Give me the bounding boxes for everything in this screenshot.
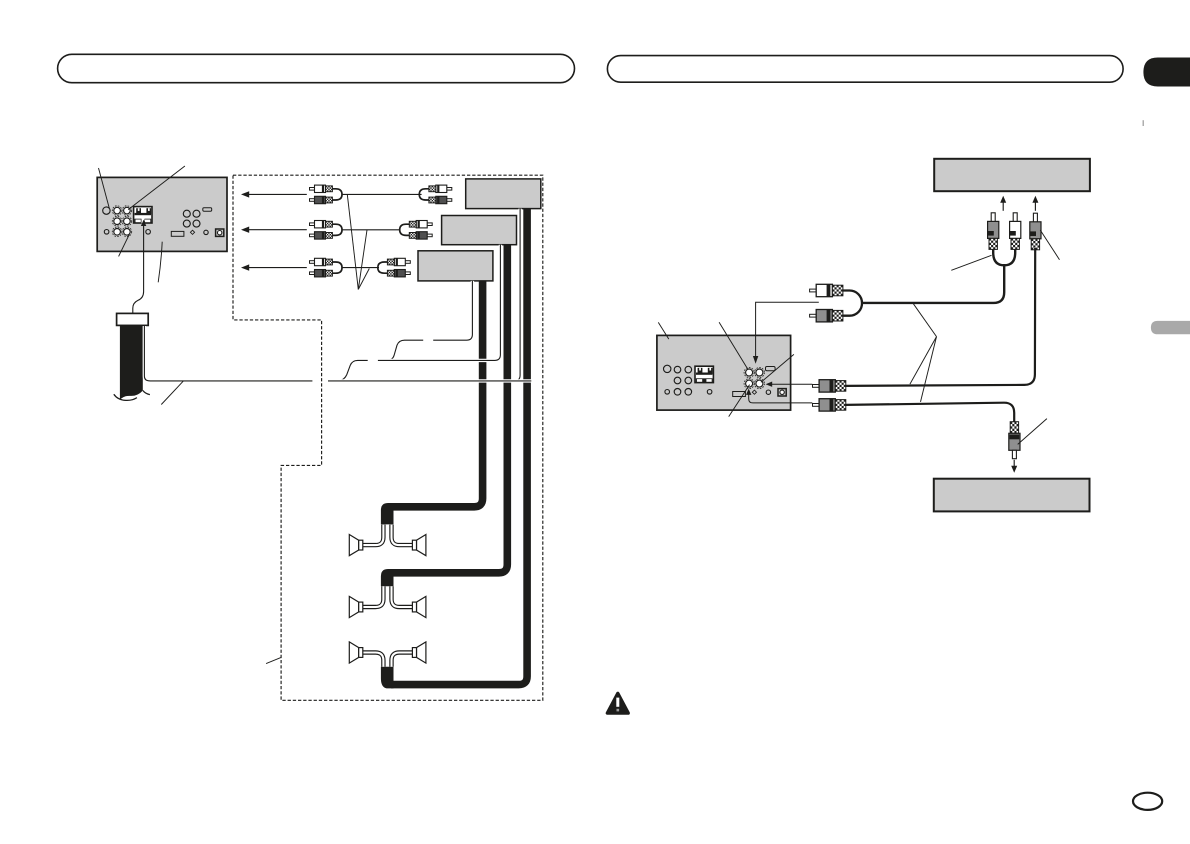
cable3 end stub bbox=[381, 503, 394, 524]
leader line: unit body callout D bbox=[158, 242, 162, 283]
top component box (right) bbox=[934, 159, 1090, 191]
right unit: left jack group bbox=[674, 366, 681, 373]
RCA interconnect wire row2 bbox=[342, 229, 400, 231]
right unit: antenna input square jack bbox=[778, 389, 786, 396]
leader line: jack callout B bbox=[128, 166, 185, 210]
RCA pair row2 right end bbox=[427, 223, 432, 226]
left unit: wiring harness connector socket bbox=[134, 207, 152, 223]
left unit: small rounded slot bbox=[203, 208, 212, 211]
gray side tab bbox=[1151, 321, 1190, 334]
cable1 end stub bbox=[381, 667, 394, 689]
right unit: AV input jacks with dashed rings bbox=[746, 369, 753, 376]
page corner black tab bbox=[1143, 58, 1190, 87]
upward RCA plug (white) bbox=[1013, 213, 1017, 222]
insertion guide with left arrow into right jack bbox=[772, 383, 813, 385]
right unit: small circle below connector bbox=[707, 390, 712, 395]
dashed boundary (hide-away components region) bbox=[233, 175, 543, 700]
RCA plug into right jack (middle) bbox=[813, 385, 820, 388]
speaker cable from box1 (thick) bbox=[391, 209, 527, 685]
left unit: small circle bbox=[104, 230, 109, 235]
RCA cable from pair to upward pair bbox=[861, 264, 1004, 303]
upward RCA plug (dark) bbox=[991, 213, 995, 222]
right unit: wiring harness connector socket bbox=[695, 366, 713, 382]
bottom component box (right) bbox=[934, 479, 1090, 512]
leader line: right unit top jack callout bbox=[719, 322, 748, 369]
left unit: small circle (power) bbox=[204, 230, 208, 234]
left unit: small diamond bbox=[190, 230, 194, 234]
RCA pair row3 right end bbox=[405, 261, 410, 264]
speaker pair row3 bbox=[363, 653, 384, 667]
right unit: small circle (power) bbox=[766, 390, 770, 394]
leader line: U-loop cable callout bbox=[951, 255, 991, 270]
leader line: speaker harness callout bbox=[266, 658, 281, 664]
left unit: fuse holder rectangle bbox=[171, 231, 184, 236]
system remote wire from box2 bbox=[378, 245, 501, 361]
RCA cable middle plug to upward single plug bbox=[846, 248, 1035, 386]
leader lines: RCA cables callout (V shape) bbox=[347, 194, 358, 289]
warning triangle bbox=[607, 693, 628, 713]
RCA plug into bottom jack bbox=[813, 404, 820, 407]
RCA pair row2 left end bbox=[310, 223, 315, 226]
head unit (rear view, right) bbox=[657, 335, 791, 410]
arrow: rear output (middle) bbox=[248, 229, 307, 231]
leader line: right unit body callout bbox=[658, 322, 669, 339]
insertion arrow down into bottom box bbox=[1013, 460, 1015, 467]
leader lines: RCA cables callout (right V) bbox=[913, 304, 936, 337]
left unit: large jack circle bbox=[103, 207, 110, 214]
small tick mark bbox=[1143, 120, 1144, 126]
system remote wire from box3 bbox=[433, 281, 472, 340]
right unit: small circle bbox=[665, 390, 670, 395]
leader line: right unit bottom-left jack callout bbox=[729, 385, 750, 417]
leader line: jack callout C bbox=[119, 234, 130, 256]
insertion arrow up (single plug) bbox=[1034, 202, 1036, 211]
header pill right bbox=[607, 56, 1123, 83]
leader line: right unit bottom-right jack callout bbox=[761, 354, 794, 382]
speaker pair row1 bbox=[363, 525, 384, 546]
head unit (rear view, left) bbox=[97, 177, 227, 251]
arrow: subwoofer output (bottom) bbox=[248, 267, 307, 269]
page number oval bbox=[1133, 793, 1162, 810]
leader line: downward plug callout bbox=[1018, 419, 1047, 445]
right unit: fuse holder rectangle bbox=[733, 392, 746, 397]
leader line: jack callout A bbox=[99, 168, 110, 208]
RCA interconnect wire row3 bbox=[342, 267, 379, 269]
insertion guide with down arrow into top jack bbox=[756, 302, 819, 356]
RCA interconnect wire row1 bbox=[342, 193, 422, 195]
power cord body (torn) bbox=[120, 325, 143, 400]
amplifier box 1 bbox=[466, 179, 541, 209]
left unit: antenna input square jack bbox=[216, 229, 224, 236]
power-cord wire with insertion arrow into connector bbox=[133, 226, 144, 314]
RCA pair row3 left end bbox=[310, 261, 315, 264]
upward RCA plug (single, gray) bbox=[1033, 213, 1037, 222]
RCA pair row1 right end bbox=[446, 188, 451, 191]
leader line: single upward plug callout bbox=[1040, 230, 1059, 260]
right unit: small rounded slot bbox=[766, 367, 776, 371]
left unit: preout jack group (right side) bbox=[183, 210, 190, 217]
speaker pair row2 bbox=[363, 586, 384, 607]
insertion arrow up (pair) bbox=[1002, 202, 1004, 211]
antenna wire from box1 bbox=[514, 209, 520, 381]
amplifier box 2 bbox=[442, 216, 517, 245]
RCA pair into right unit (left end) bbox=[810, 289, 817, 292]
arrow: front output (top) bbox=[248, 193, 307, 195]
speaker cable from box3 (thick) bbox=[391, 281, 483, 507]
leader line: antenna wire callout bbox=[161, 381, 183, 404]
RCA cable bottom plug to downward plug bbox=[846, 403, 1015, 422]
RCA pair row1 left end bbox=[310, 188, 315, 191]
amplifier box 3 bbox=[418, 251, 493, 281]
long antenna lead wire bbox=[144, 326, 312, 381]
right unit: large jack circle bbox=[664, 365, 671, 372]
left unit: small circle right of connector bbox=[146, 230, 151, 235]
insertion guide with up arrow into bottom jack bbox=[749, 395, 813, 403]
header pill left bbox=[58, 54, 575, 82]
left unit: RCA output jacks with dashed rings bbox=[114, 207, 121, 214]
power cord plug cap bbox=[117, 313, 149, 325]
speaker cable from box2 (thick) bbox=[391, 245, 507, 573]
downward RCA plug (gray) bbox=[1010, 422, 1018, 434]
cable2 end stub bbox=[381, 569, 394, 586]
right unit: small diamond bbox=[752, 390, 756, 394]
RCA cable U-loop to upward pair bbox=[993, 246, 1015, 265]
